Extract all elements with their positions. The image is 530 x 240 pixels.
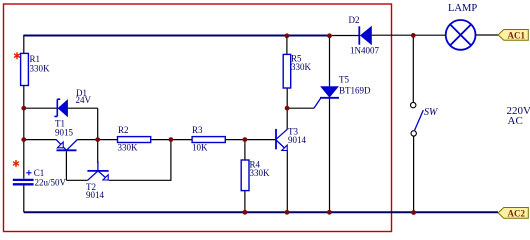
wire R5 top lead: [286, 36, 288, 55]
svg-text:330K: 330K: [30, 64, 51, 74]
junction node T5 anode rail: [327, 33, 332, 38]
wire D2 anode to lamp: [372, 34, 446, 36]
wire T1 emitter row: [24, 139, 57, 141]
svg-text:1N4007: 1N4007: [350, 46, 379, 56]
junction node R4 bottom rail: [243, 210, 248, 215]
svg-text:C1: C1: [34, 168, 45, 178]
red boundary frame: [4, 4, 392, 232]
capacitor C1: [13, 168, 67, 188]
junction node T1 emitter tap: [21, 137, 26, 142]
svg-text:22u/50V: 22u/50V: [35, 178, 67, 188]
wire D1 anode column down to T2 base: [97, 108, 99, 163]
svg-text:9014: 9014: [86, 190, 105, 200]
wire T1 base lead down: [65, 151, 67, 181]
wire T5 cathode lead: [329, 99, 331, 213]
wire lamp to AC1: [476, 34, 499, 36]
junction node switch tap rail: [411, 33, 416, 38]
svg-text:9014: 9014: [288, 135, 307, 145]
svg-text:10K: 10K: [192, 142, 208, 152]
label 220V AC: [507, 105, 530, 127]
resistor R5: [283, 54, 311, 89]
svg-text:T5: T5: [339, 75, 349, 85]
svg-text:330K: 330K: [250, 168, 271, 178]
junction node T3 emitter rail: [285, 210, 290, 215]
transistor T3: [276, 127, 307, 151]
svg-text:9015: 9015: [55, 127, 74, 137]
svg-text:D2: D2: [349, 15, 360, 25]
svg-text:BT169D: BT169D: [339, 86, 371, 96]
wire T5 node to D2 cathode: [330, 35, 359, 37]
svg-text:330K: 330K: [118, 142, 139, 152]
wire switch bottom lead: [413, 136, 415, 212]
svg-text:24V: 24V: [76, 95, 92, 105]
lamp: [446, 3, 478, 50]
resistor R4: [241, 160, 270, 191]
resistor R3: [192, 125, 225, 152]
svg-text:R1: R1: [30, 54, 41, 64]
wire R4 bottom lead: [244, 191, 246, 213]
wire R4 top lead: [244, 140, 246, 160]
junction node T5 cathode rail: [327, 210, 332, 215]
wire C1 bottom lead: [23, 185, 25, 212]
wire R2 to R3: [151, 139, 192, 141]
wire T5 anode lead: [329, 36, 331, 81]
junction node R1/D1/C1: [21, 106, 26, 111]
switch SW: [411, 102, 440, 136]
resistor R2: [118, 125, 151, 152]
wire T2 emitter to feedback corner: [109, 140, 171, 181]
wire T5 gate row: [287, 107, 314, 109]
thyristor T5: [314, 75, 371, 109]
transistor T1: [55, 119, 77, 151]
svg-text:330K: 330K: [291, 62, 312, 72]
wire R3 to T3 base: [225, 139, 275, 141]
wire switch top lead: [412, 36, 414, 103]
wire R5 bottom to T3 collector: [286, 88, 288, 129]
wire node to D1 cathode: [24, 107, 57, 109]
wire top rail: [24, 35, 330, 37]
terminal AC1: [498, 30, 528, 41]
terminal AC2: [498, 208, 528, 219]
wire D1 anode to T2 base column: [68, 107, 98, 109]
svg-text:SW: SW: [424, 107, 439, 118]
junction node R5 top rail: [285, 33, 290, 38]
resistor R1: [21, 53, 50, 85]
junction node T1 collector/R2/T2 base: [95, 137, 100, 142]
svg-text:AC2: AC2: [508, 208, 526, 218]
wire T1 collector to R2: [77, 139, 117, 141]
asterisk near R1: [14, 52, 20, 59]
wire T3 emitter column down: [286, 151, 288, 213]
junction node R3/R4/T3 base: [243, 137, 248, 142]
wire left column R1-C1: [23, 86, 25, 179]
svg-text:LAMP: LAMP: [448, 3, 477, 14]
junction node R2/R3/T2 emitter: [169, 137, 174, 142]
junction node R5/T5 gate/T3 collector: [285, 106, 290, 111]
diode D2: [349, 15, 380, 56]
svg-text:R2: R2: [118, 125, 129, 135]
wire T1 base to T2 collector: [66, 179, 87, 181]
wire R1 top lead: [23, 35, 25, 54]
svg-text:AC1: AC1: [508, 30, 526, 40]
asterisk near C1: [13, 160, 19, 167]
junction node switch bottom rail: [411, 210, 416, 215]
svg-text:AC: AC: [508, 115, 523, 127]
wire bottom rail: [24, 211, 498, 213]
zener diode D1: [54, 88, 91, 117]
svg-text:R3: R3: [192, 125, 203, 135]
transistor T2: [86, 161, 109, 200]
